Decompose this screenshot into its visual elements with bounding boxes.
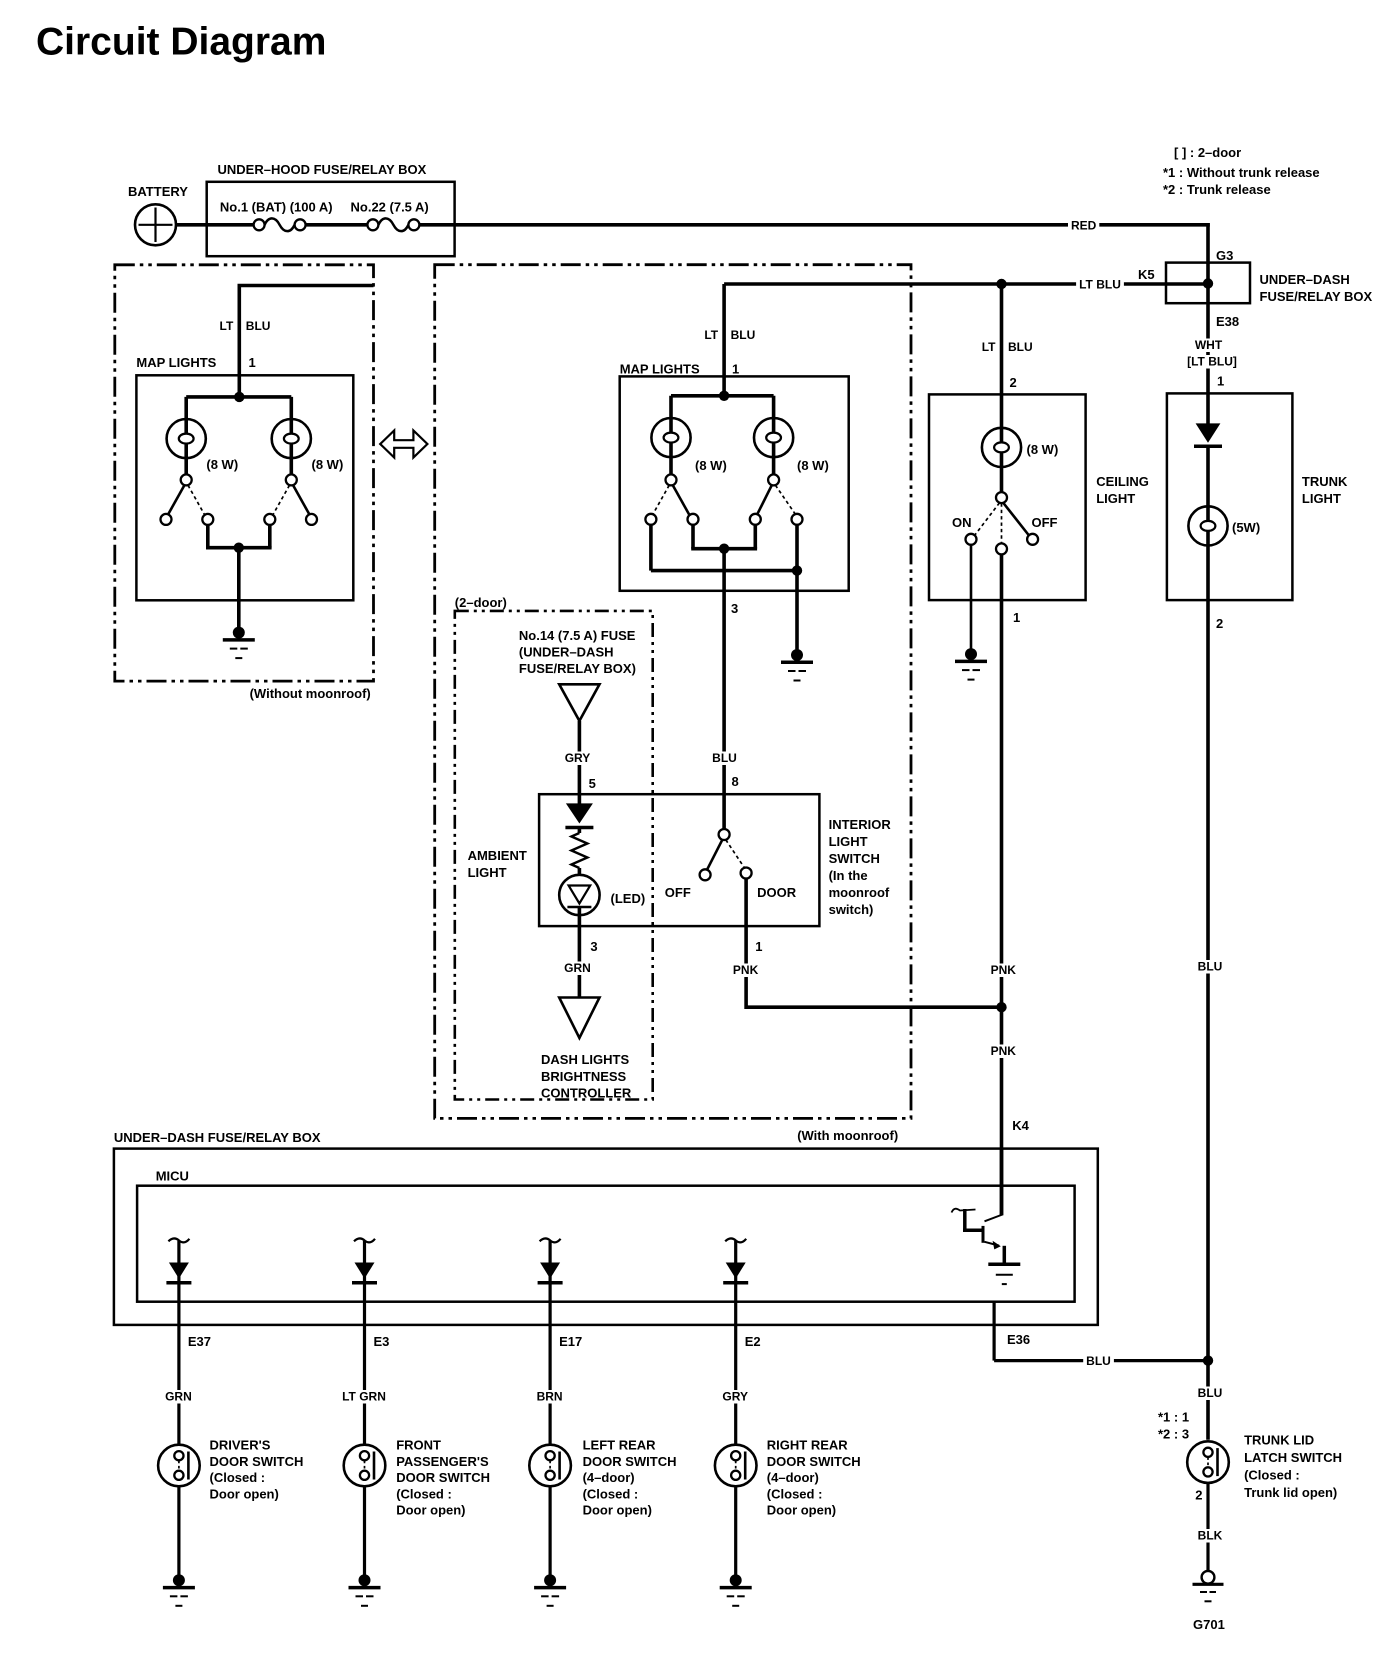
svg-text:LATCH SWITCH: LATCH SWITCH xyxy=(1244,1450,1342,1465)
svg-text:PNK: PNK xyxy=(991,1044,1017,1058)
svg-text:DOOR: DOOR xyxy=(757,885,797,900)
svg-text:No.1 (BAT) (100 A): No.1 (BAT) (100 A) xyxy=(220,200,333,215)
svg-text:(Without moonroof): (Without moonroof) xyxy=(250,686,371,701)
svg-text:Door open): Door open) xyxy=(583,1503,652,1518)
svg-text:1: 1 xyxy=(1217,374,1224,389)
svg-text:BLU: BLU xyxy=(1086,1354,1111,1368)
svg-text:[ ] : 2–door: [ ] : 2–door xyxy=(1174,145,1241,160)
svg-text:LIGHT: LIGHT xyxy=(1302,491,1341,506)
svg-text:CONTROLLER: CONTROLLER xyxy=(541,1086,632,1101)
svg-text:(In the: (In the xyxy=(829,868,868,883)
svg-text:TRUNK: TRUNK xyxy=(1302,474,1348,489)
svg-text:*1 : Without trunk release: *1 : Without trunk release xyxy=(1163,165,1320,180)
svg-text:RIGHT REAR: RIGHT REAR xyxy=(767,1438,849,1453)
svg-text:[LT BLU]: [LT BLU] xyxy=(1187,355,1237,369)
svg-text:Door open): Door open) xyxy=(396,1503,465,1518)
svg-text:LT: LT xyxy=(982,340,996,354)
svg-text:(2–door): (2–door) xyxy=(455,595,507,610)
svg-text:BRIGHTNESS: BRIGHTNESS xyxy=(541,1069,627,1084)
svg-text:(Closed :: (Closed : xyxy=(210,1470,266,1485)
svg-text:*2 : Trunk release: *2 : Trunk release xyxy=(1163,182,1271,197)
svg-text:(With moonroof): (With moonroof) xyxy=(797,1128,898,1143)
svg-text:(8 W): (8 W) xyxy=(206,457,238,472)
svg-text:SWITCH: SWITCH xyxy=(829,851,880,866)
svg-text:RED: RED xyxy=(1071,219,1097,233)
svg-text:Circuit Diagram: Circuit Diagram xyxy=(36,21,326,64)
svg-text:(Closed :: (Closed : xyxy=(396,1486,452,1501)
svg-text:(8 W): (8 W) xyxy=(312,457,344,472)
svg-text:8: 8 xyxy=(732,774,739,789)
svg-text:K5: K5 xyxy=(1138,267,1155,282)
svg-text:(4–door): (4–door) xyxy=(583,1470,635,1485)
svg-text:BLU: BLU xyxy=(1198,1386,1223,1400)
svg-text:UNDER–DASH: UNDER–DASH xyxy=(1260,272,1350,287)
svg-text:INTERIOR: INTERIOR xyxy=(829,817,892,832)
svg-text:1: 1 xyxy=(249,355,256,370)
svg-text:switch): switch) xyxy=(829,902,874,917)
svg-text:LEFT REAR: LEFT REAR xyxy=(583,1438,657,1453)
svg-text:FUSE/RELAY BOX): FUSE/RELAY BOX) xyxy=(519,661,636,676)
svg-text:UNDER–HOOD FUSE/RELAY BOX: UNDER–HOOD FUSE/RELAY BOX xyxy=(218,162,427,177)
svg-text:UNDER–DASH FUSE/RELAY BOX: UNDER–DASH FUSE/RELAY BOX xyxy=(114,1130,321,1145)
svg-text:LIGHT: LIGHT xyxy=(1096,491,1135,506)
svg-text:CEILING: CEILING xyxy=(1096,474,1149,489)
svg-text:(4–door): (4–door) xyxy=(767,1470,819,1485)
svg-text:No.14 (7.5 A) FUSE: No.14 (7.5 A) FUSE xyxy=(519,628,636,643)
svg-text:E36: E36 xyxy=(1007,1332,1030,1347)
svg-text:DASH LIGHTS: DASH LIGHTS xyxy=(541,1052,629,1067)
svg-text:LT: LT xyxy=(704,328,718,342)
svg-text:E37: E37 xyxy=(188,1334,211,1349)
svg-text:PNK: PNK xyxy=(733,963,759,977)
svg-text:FUSE/RELAY BOX: FUSE/RELAY BOX xyxy=(1260,289,1373,304)
svg-text:2: 2 xyxy=(1195,1488,1202,1503)
svg-text:BLU: BLU xyxy=(1008,340,1033,354)
svg-text:PASSENGER'S: PASSENGER'S xyxy=(396,1454,489,1469)
svg-text:OFF: OFF xyxy=(1032,515,1058,530)
svg-text:3: 3 xyxy=(731,601,738,616)
svg-text:G701: G701 xyxy=(1193,1617,1225,1632)
svg-text:DOOR SWITCH: DOOR SWITCH xyxy=(767,1454,861,1469)
svg-text:LT: LT xyxy=(220,319,234,333)
svg-text:*1 : 1: *1 : 1 xyxy=(1158,1410,1189,1425)
svg-text:3: 3 xyxy=(590,939,597,954)
svg-text:(UNDER–DASH: (UNDER–DASH xyxy=(519,645,614,660)
svg-text:MAP LIGHTS: MAP LIGHTS xyxy=(620,362,700,377)
svg-text:DOOR SWITCH: DOOR SWITCH xyxy=(210,1454,304,1469)
svg-text:1: 1 xyxy=(755,939,762,954)
svg-text:G3: G3 xyxy=(1216,248,1233,263)
svg-text:2: 2 xyxy=(1216,616,1223,631)
svg-text:Trunk lid open): Trunk lid open) xyxy=(1244,1485,1337,1500)
svg-text:K4: K4 xyxy=(1012,1118,1029,1133)
svg-text:E17: E17 xyxy=(559,1334,582,1349)
svg-text:LIGHT: LIGHT xyxy=(829,834,868,849)
svg-text:BRN: BRN xyxy=(537,1390,563,1404)
svg-text:No.22 (7.5 A): No.22 (7.5 A) xyxy=(351,200,429,215)
svg-text:BLU: BLU xyxy=(246,319,271,333)
svg-text:E38: E38 xyxy=(1216,314,1239,329)
svg-text:DOOR SWITCH: DOOR SWITCH xyxy=(583,1454,677,1469)
svg-text:(8 W): (8 W) xyxy=(695,458,727,473)
svg-text:5: 5 xyxy=(589,776,596,791)
svg-text:(Closed :: (Closed : xyxy=(767,1486,823,1501)
svg-text:BLU: BLU xyxy=(1198,960,1223,974)
svg-text:AMBIENT: AMBIENT xyxy=(468,848,527,863)
svg-text:OFF: OFF xyxy=(665,885,691,900)
svg-text:(5W): (5W) xyxy=(1232,520,1260,535)
svg-text:WHT: WHT xyxy=(1195,338,1223,352)
svg-text:TRUNK LID: TRUNK LID xyxy=(1244,1433,1314,1448)
svg-text:E2: E2 xyxy=(745,1334,761,1349)
svg-text:PNK: PNK xyxy=(991,963,1017,977)
svg-text:GRY: GRY xyxy=(565,751,591,765)
svg-text:E3: E3 xyxy=(374,1334,390,1349)
svg-text:Door open): Door open) xyxy=(210,1486,279,1501)
svg-text:BLU: BLU xyxy=(731,328,756,342)
svg-text:(8 W): (8 W) xyxy=(1027,442,1059,457)
svg-text:GRN: GRN xyxy=(165,1390,192,1404)
svg-text:(8 W): (8 W) xyxy=(797,458,829,473)
svg-text:1: 1 xyxy=(732,362,739,377)
svg-text:DOOR SWITCH: DOOR SWITCH xyxy=(396,1470,490,1485)
svg-text:(LED): (LED) xyxy=(611,891,646,906)
svg-text:BATTERY: BATTERY xyxy=(128,184,188,199)
svg-text:BLK: BLK xyxy=(1198,1529,1223,1543)
svg-text:LIGHT: LIGHT xyxy=(468,865,507,880)
svg-text:ON: ON xyxy=(952,515,972,530)
svg-text:BLU: BLU xyxy=(712,751,737,765)
svg-text:Door open): Door open) xyxy=(767,1503,836,1518)
svg-text:*2 : 3: *2 : 3 xyxy=(1158,1427,1189,1442)
svg-text:(Closed :: (Closed : xyxy=(583,1486,639,1501)
svg-text:moonroof: moonroof xyxy=(829,885,890,900)
svg-text:GRN: GRN xyxy=(564,961,591,975)
svg-text:MAP LIGHTS: MAP LIGHTS xyxy=(136,355,216,370)
svg-text:1: 1 xyxy=(1013,610,1020,625)
svg-text:(Closed :: (Closed : xyxy=(1244,1468,1300,1483)
svg-text:DRIVER'S: DRIVER'S xyxy=(210,1438,271,1453)
svg-text:FRONT: FRONT xyxy=(396,1438,441,1453)
svg-text:GRY: GRY xyxy=(722,1390,748,1404)
svg-text:LT BLU: LT BLU xyxy=(1079,278,1121,292)
svg-text:LT GRN: LT GRN xyxy=(342,1390,386,1404)
svg-text:MICU: MICU xyxy=(156,1169,189,1184)
svg-text:2: 2 xyxy=(1010,375,1017,390)
